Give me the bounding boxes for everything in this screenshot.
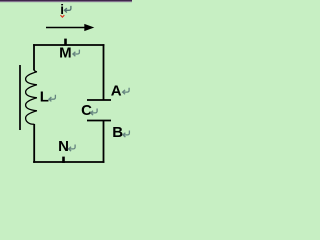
svg-text:L: L: [40, 89, 49, 106]
svg-text:B: B: [112, 124, 123, 141]
svg-text:M: M: [59, 45, 72, 62]
svg-text:A: A: [111, 82, 122, 99]
svg-text:N: N: [58, 138, 69, 155]
svg-text:i: i: [60, 2, 64, 17]
svg-text:C: C: [81, 102, 92, 119]
